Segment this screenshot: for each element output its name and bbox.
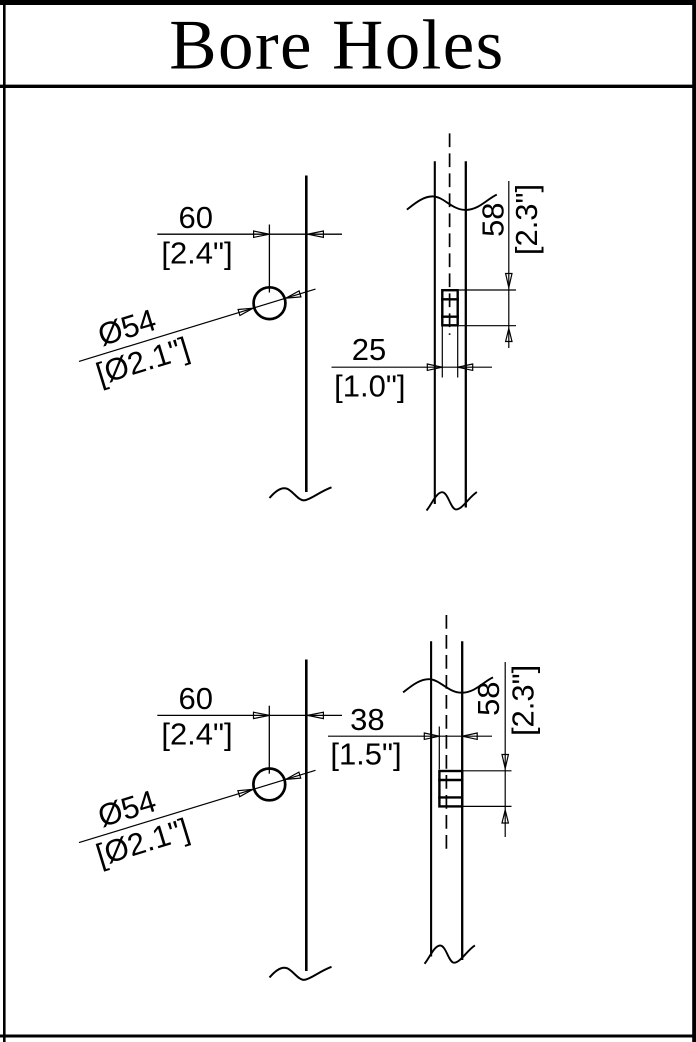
fig2 latch body rectangle — [439, 771, 462, 806]
svg-text:[2.4"]: [2.4"] — [161, 717, 232, 752]
fig2 door face line (front view) — [305, 660, 308, 972]
fig2 ext line 58 bottom — [463, 805, 511, 807]
svg-text:[1.0"]: [1.0"] — [334, 369, 405, 404]
svg-text:[2.4"]: [2.4"] — [161, 236, 232, 271]
frame left border — [3, 0, 6, 1042]
svg-text:[2.3"]: [2.3"] — [509, 184, 544, 255]
frame top border — [0, 0, 696, 5]
fig2 leader left arrow — [238, 789, 253, 796]
fig1 diameter leader line — [79, 289, 316, 361]
fig1 dimension line 58 — [508, 181, 510, 348]
fig2 edge view left line — [430, 641, 432, 956]
svg-text:Bore Holes: Bore Holes — [169, 7, 504, 85]
fig1 front view break squiggle — [270, 487, 332, 500]
svg-text:60: 60 — [178, 200, 212, 235]
fig1 edge view right line — [465, 161, 467, 507]
fig1 dim 25 left arrow — [427, 364, 442, 370]
svg-text:38: 38 — [350, 702, 384, 737]
fig1 edge view bottom break wave — [427, 492, 477, 510]
fig2 front view break squiggle — [270, 967, 332, 980]
svg-text:60: 60 — [178, 681, 212, 716]
fig1 leader right arrow — [286, 291, 301, 298]
fig1 dim 58 top arrow — [506, 274, 512, 288]
fig1 dimension line 25 — [332, 366, 493, 368]
fig1 ext line 25 right — [457, 327, 459, 378]
fig1 ext line 58 bottom — [459, 325, 516, 327]
frame right border — [692, 0, 696, 1042]
fig2 dim 60 right arrow — [308, 712, 324, 718]
title separator line — [0, 85, 696, 88]
fig1 leader left arrow — [238, 308, 253, 315]
fig1 latch internal line upper — [441, 298, 459, 300]
fig2 bore center extension line — [268, 706, 270, 774]
svg-text:25: 25 — [352, 332, 386, 367]
fig1 ext line 25 left — [441, 327, 443, 378]
fig2 edge view right line — [461, 641, 463, 960]
svg-text:58: 58 — [471, 681, 506, 715]
fig2 ext line 58 top — [463, 770, 511, 772]
fig2 dim 60 left arrow — [254, 712, 270, 718]
fig1 dim 58 bottom arrow — [506, 329, 512, 342]
fig2 dim 58 top arrow — [502, 755, 508, 769]
fig1 dimension line 60 — [157, 233, 342, 235]
fig1 edge view left line — [434, 161, 436, 504]
fig2 ext line 38 — [438, 727, 440, 770]
fig2 dimension line 58 — [504, 662, 506, 837]
fig2 dimension line 38 — [328, 735, 492, 737]
fig2 latch internal line upper — [438, 779, 463, 781]
fig1 bore circle — [254, 287, 286, 319]
fig1 edge view top break wave — [407, 195, 497, 210]
frame bottom border — [0, 1035, 696, 1038]
fig1 bore center extension line — [268, 225, 270, 293]
fig2 leader right arrow — [286, 772, 301, 779]
fig1 centerline (dashed) — [449, 133, 451, 335]
fig1 dim 25 right arrow — [458, 364, 473, 370]
fig1 latch body rectangle — [442, 290, 457, 325]
fig1 dim 60 left arrow — [254, 231, 270, 237]
fig2 dim 58 bottom arrow — [502, 810, 508, 823]
fig1 ext line 58 top — [459, 289, 516, 291]
svg-text:[2.3"]: [2.3"] — [506, 665, 541, 736]
fig2 centerline (dashed) — [445, 615, 447, 850]
fig1 door face line (front view) — [305, 176, 308, 493]
fig2 latch internal line lower — [438, 796, 463, 798]
svg-text:[1.5"]: [1.5"] — [330, 737, 401, 772]
fig2 diameter leader line — [79, 770, 316, 842]
fig2 edge view bottom break wave — [425, 945, 475, 963]
fig1 latch internal line lower — [441, 316, 459, 318]
fig2 dim 38 left arrow — [424, 733, 439, 739]
fig1 dim 60 right arrow — [308, 231, 324, 237]
fig2 edge view top break wave — [403, 677, 493, 692]
svg-text:58: 58 — [475, 202, 510, 236]
fig2 dim 38 right arrow — [462, 733, 477, 739]
fig2 bore circle — [253, 769, 285, 801]
fig2 dimension line 60 — [157, 714, 342, 716]
